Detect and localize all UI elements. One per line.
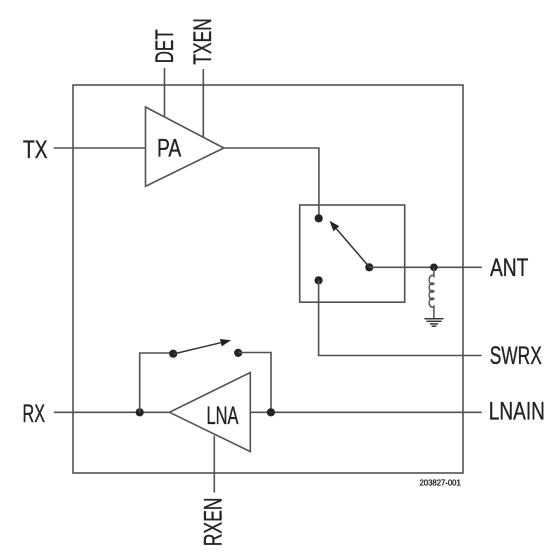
wire PA output to switch xyxy=(224,148,319,218)
node switch RX throw xyxy=(315,276,323,284)
svg-text:SWRX: SWRX xyxy=(490,342,542,370)
wire bypass left xyxy=(140,353,173,412)
wire TXEN xyxy=(202,69,204,137)
amplifier PA xyxy=(146,107,224,186)
svg-text:LNA: LNA xyxy=(207,402,239,430)
node switch TX throw xyxy=(315,214,323,222)
svg-text:ANT: ANT xyxy=(490,254,528,282)
svg-text:TX: TX xyxy=(23,136,48,164)
amplifier LNA xyxy=(170,373,251,452)
svg-text:RXEN: RXEN xyxy=(199,498,227,547)
wire TX input xyxy=(54,147,146,149)
switch box xyxy=(300,205,405,302)
wire RXEN xyxy=(213,436,215,493)
switch arm SW2 bypass xyxy=(173,339,231,354)
wire DET xyxy=(164,68,166,117)
ground xyxy=(425,319,444,327)
chip outline box xyxy=(73,85,463,473)
node LNA input junction xyxy=(136,408,144,416)
svg-text:TXEN: TXEN xyxy=(189,18,217,64)
wire bypass right xyxy=(238,353,271,413)
svg-text:LNAIN: LNAIN xyxy=(489,397,545,425)
svg-text:203827-001: 203827-001 xyxy=(420,479,462,488)
node bypass switch left xyxy=(169,350,177,358)
node LNA output junction xyxy=(267,408,275,416)
wire LNA output to LNAIN xyxy=(250,411,481,413)
svg-text:DET: DET xyxy=(151,29,179,63)
wire switch pole to ANT xyxy=(369,266,481,268)
svg-text:RX: RX xyxy=(23,400,46,428)
switch arm SW1 xyxy=(330,221,370,267)
wire SWRX xyxy=(319,280,482,355)
node ANT junction xyxy=(430,264,438,272)
inductor L1 xyxy=(429,267,434,318)
node switch pole xyxy=(365,263,373,271)
node bypass switch right xyxy=(234,349,242,357)
wire RX input xyxy=(54,411,170,413)
svg-text:PA: PA xyxy=(157,134,182,162)
